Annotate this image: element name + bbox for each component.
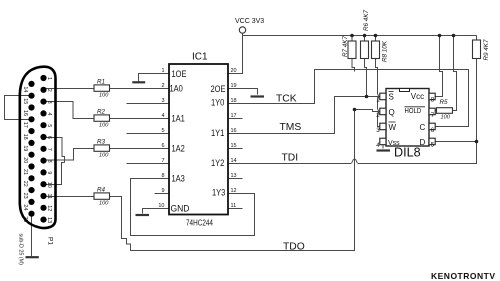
svg-text:1: 1 [46,77,52,80]
svg-text:P1: P1 [47,237,54,245]
svg-text:20: 20 [231,68,237,74]
svg-text:TDI: TDI [282,152,299,163]
svg-text:9: 9 [161,188,164,194]
svg-text:100: 100 [99,92,109,98]
svg-text:23: 23 [22,193,28,199]
svg-text:S: S [389,93,394,102]
svg-text:1Y2: 1Y2 [211,157,225,168]
svg-text:2: 2 [161,83,164,89]
svg-text:TMS: TMS [280,122,302,133]
svg-text:8: 8 [46,160,52,163]
svg-text:100: 100 [99,122,109,128]
svg-text:W: W [389,123,397,132]
svg-text:17: 17 [231,113,237,119]
svg-text:11: 11 [46,194,52,200]
svg-text:R6 4K7: R6 4K7 [363,9,370,31]
svg-text:DIL8: DIL8 [394,145,421,159]
svg-text:74HC244: 74HC244 [186,217,213,227]
svg-text:19: 19 [22,145,28,151]
svg-text:4: 4 [161,113,164,119]
svg-text:R7 4K7: R7 4K7 [342,35,349,57]
svg-text:7: 7 [161,158,164,164]
svg-text:1Y1: 1Y1 [211,127,225,138]
svg-text:VCC 3V3: VCC 3V3 [235,18,264,25]
svg-text:15: 15 [231,143,237,149]
svg-text:18: 18 [22,134,28,140]
svg-text:1Y3: 1Y3 [212,187,226,198]
svg-text:sub-D 25 (M): sub-D 25 (M) [18,234,24,266]
svg-text:3: 3 [46,101,52,104]
svg-text:2OE: 2OE [211,83,226,94]
svg-text:5: 5 [46,124,52,127]
svg-text:4: 4 [46,112,52,115]
svg-text:IC1: IC1 [192,52,208,63]
svg-text:1OE: 1OE [172,68,187,79]
svg-text:6: 6 [161,143,164,149]
svg-text:HOLD: HOLD [405,108,422,116]
svg-text:R2: R2 [97,109,106,116]
svg-text:R4: R4 [97,187,106,194]
svg-text:3: 3 [161,98,164,104]
svg-text:1A1: 1A1 [172,113,186,124]
svg-text:Vcc: Vcc [411,92,424,101]
svg-text:16: 16 [22,110,28,116]
svg-text:R3: R3 [97,139,106,146]
svg-text:6: 6 [46,136,52,139]
svg-text:18: 18 [231,98,237,104]
svg-text:20: 20 [22,157,28,163]
svg-text:R5: R5 [440,99,449,106]
svg-text:5: 5 [431,141,435,148]
svg-text:GND: GND [171,203,190,214]
svg-text:11: 11 [231,203,237,209]
svg-text:21: 21 [22,169,28,175]
svg-text:12: 12 [46,205,52,211]
svg-text:10: 10 [158,203,164,209]
svg-text:1A2: 1A2 [172,143,186,154]
svg-text:1: 1 [376,97,380,104]
svg-text:C: C [420,123,426,132]
svg-text:7: 7 [46,148,52,151]
svg-text:10: 10 [46,182,52,188]
svg-text:4: 4 [376,142,380,149]
svg-text:2: 2 [46,89,52,92]
svg-text:8: 8 [161,173,164,179]
svg-text:24: 24 [22,204,28,210]
svg-text:100: 100 [99,200,109,206]
svg-text:TDO: TDO [283,242,305,253]
svg-text:14: 14 [231,158,237,164]
svg-text:100: 100 [441,115,451,121]
svg-text:R8 10K: R8 10K [382,40,389,62]
svg-text:1A3: 1A3 [172,173,186,184]
svg-text:5: 5 [161,128,164,134]
svg-text:25: 25 [22,216,28,222]
svg-text:9: 9 [46,171,52,174]
svg-text:22: 22 [22,181,28,187]
svg-text:7: 7 [431,112,435,119]
svg-text:TCK: TCK [276,94,297,105]
svg-text:8: 8 [431,97,435,104]
svg-text:R1: R1 [97,79,105,86]
svg-text:13: 13 [231,173,237,179]
svg-text:16: 16 [231,128,237,134]
svg-text:6: 6 [431,127,435,134]
svg-text:2: 2 [376,112,380,119]
svg-text:Q: Q [389,108,395,117]
svg-text:100: 100 [99,152,109,158]
svg-text:1: 1 [161,68,164,74]
svg-text:1A0: 1A0 [170,83,184,94]
svg-text:3: 3 [376,127,380,134]
svg-text:KENOTRONTV: KENOTRONTV [431,271,496,281]
svg-text:R9 4K7: R9 4K7 [483,39,490,61]
svg-text:17: 17 [22,122,28,128]
svg-text:1Y0: 1Y0 [211,97,225,108]
svg-text:14: 14 [22,86,28,92]
svg-text:12: 12 [231,188,237,194]
svg-text:13: 13 [46,217,52,223]
svg-text:19: 19 [231,83,237,89]
svg-text:15: 15 [22,98,28,104]
